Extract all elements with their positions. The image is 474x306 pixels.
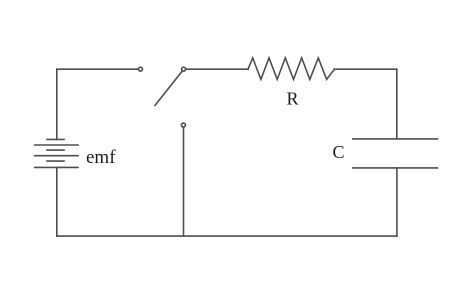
wire top-left vertical (emf top to top rail)	[56, 69, 58, 139]
wire switch lower terminal to bottom rail	[183, 127, 185, 236]
wire top rail middle segment (switch to resistor)	[186, 68, 248, 70]
battery emf short plate 2	[47, 149, 64, 151]
switch lower terminal node (bottom circle)	[181, 123, 185, 127]
battery emf short plate 1	[47, 138, 64, 140]
switch blade (open)	[155, 71, 182, 106]
wire right vertical (corner to capacitor top)	[396, 69, 398, 139]
svg-text:C: C	[333, 142, 345, 162]
svg-text:R: R	[287, 89, 299, 109]
wire top rail right segment (resistor to corner)	[334, 68, 397, 70]
battery emf long plate 2	[35, 155, 78, 157]
wire top rail left segment	[57, 68, 139, 70]
svg-text:emf: emf	[86, 147, 116, 168]
battery emf short plate 3	[47, 160, 64, 162]
battery emf long plate 1	[35, 144, 78, 146]
capacitor C bottom plate	[353, 167, 438, 169]
battery emf long plate 3	[35, 166, 78, 168]
capacitor C top plate	[353, 138, 438, 140]
switch terminal node (left circle)	[139, 67, 143, 71]
wire battery bottom vertical	[56, 167, 58, 236]
switch pivot node (right circle)	[182, 67, 186, 71]
wire bottom rail	[57, 235, 397, 237]
resistor R zigzag	[248, 58, 334, 80]
wire capacitor bottom to bottom rail	[396, 168, 398, 236]
